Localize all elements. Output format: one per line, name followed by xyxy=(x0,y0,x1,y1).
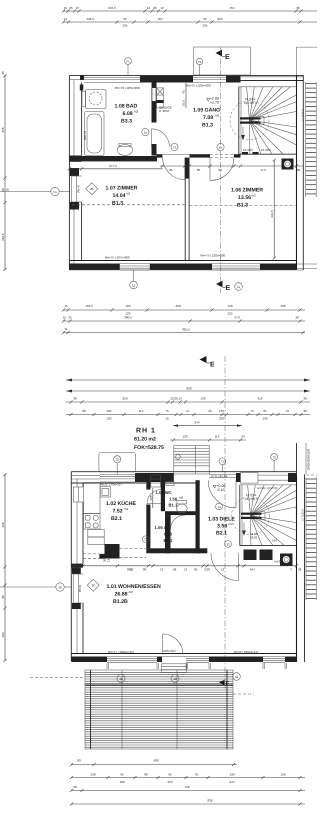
svg-text:B1.1: B1.1 xyxy=(169,503,179,508)
svg-text:647: 647 xyxy=(250,568,255,572)
dimension line xyxy=(71,803,305,805)
interior dim row (gf) xyxy=(71,565,296,567)
svg-text:130: 130 xyxy=(90,773,95,777)
svg-text:38: 38 xyxy=(303,397,307,401)
svg-text:128: 128 xyxy=(182,435,187,439)
svg-text:T1: T1 xyxy=(221,460,225,464)
axis line E xyxy=(220,47,222,293)
svg-text:10: 10 xyxy=(58,585,62,589)
svg-text:38: 38 xyxy=(303,409,307,413)
wall kitchen right xyxy=(146,480,150,489)
left vertical dim line xyxy=(4,75,6,270)
marker T3 kitchen wall xyxy=(142,536,149,543)
svg-text:86: 86 xyxy=(82,409,86,413)
svg-text:7.52: 7.52 xyxy=(113,509,123,515)
stair enclosure xyxy=(238,87,240,154)
canopy outline above stairs xyxy=(194,47,251,75)
svg-text:115: 115 xyxy=(139,409,144,413)
svg-text:20: 20 xyxy=(90,187,94,191)
door to 1.06 xyxy=(209,158,211,181)
dimension line xyxy=(66,414,310,416)
svg-text:20: 20 xyxy=(92,584,96,588)
svg-text:15: 15 xyxy=(64,304,68,308)
shaft top xyxy=(151,475,161,487)
bottom exterior wall xyxy=(69,260,296,262)
svg-text:10,26,13: 10,26,13 xyxy=(170,397,182,401)
svg-text:12: 12 xyxy=(221,568,225,572)
under-stair black blocks xyxy=(244,550,257,561)
top exterior wall xyxy=(69,74,303,76)
svg-text:15: 15 xyxy=(63,316,67,320)
svg-text:331.5: 331.5 xyxy=(270,210,274,218)
stair handrail bar (gf) xyxy=(241,513,262,515)
svg-text:25: 25 xyxy=(68,316,72,320)
entrance door leaf xyxy=(235,480,237,508)
terrace markers xyxy=(117,675,125,683)
svg-text:52.5: 52.5 xyxy=(182,100,186,106)
svg-text:100x=217: 100x=217 xyxy=(163,649,177,653)
wohnen/diele door xyxy=(238,553,240,581)
svg-text:E: E xyxy=(210,362,215,369)
dim 244 xyxy=(173,425,242,427)
wc door arc xyxy=(147,503,161,505)
svg-text:m2: m2 xyxy=(126,192,130,196)
window bottom 1 xyxy=(107,656,157,658)
svg-text:173: 173 xyxy=(260,168,265,172)
svg-text:30: 30 xyxy=(297,168,301,172)
corner jamb block xyxy=(80,85,84,91)
svg-text:30: 30 xyxy=(241,435,245,439)
marker T3 top xyxy=(271,454,278,461)
left vertical dim line (gf) xyxy=(4,474,6,661)
svg-text:Anf.Stb. 120x=250: Anf.Stb. 120x=250 xyxy=(257,487,278,490)
svg-text:90: 90 xyxy=(218,168,222,172)
svg-text:1.05 AR: 1.05 AR xyxy=(155,525,170,530)
dim 277.5 line xyxy=(69,168,162,170)
svg-text:190: 190 xyxy=(227,304,232,308)
svg-text:190: 190 xyxy=(262,417,267,421)
marker T2 below xyxy=(130,281,138,289)
svg-text:75: 75 xyxy=(165,409,169,413)
door marker 1a xyxy=(142,128,149,135)
svg-text:12: 12 xyxy=(160,568,164,572)
step marker xyxy=(176,455,181,460)
svg-text:12: 12 xyxy=(130,568,134,572)
level marks xyxy=(213,486,216,489)
svg-text:38: 38 xyxy=(73,397,77,401)
svg-text:96: 96 xyxy=(208,409,212,413)
svg-text:m2: m2 xyxy=(229,522,233,526)
window jamb ticks below wall xyxy=(106,663,108,669)
door bath xyxy=(151,129,153,147)
wall wc bottom xyxy=(165,511,196,515)
window bottom 2 xyxy=(186,656,209,658)
wall gang/zimmer south xyxy=(157,154,163,157)
window left (kitchen) xyxy=(73,487,78,502)
dimension line xyxy=(63,320,305,322)
wall kitchen/wohnen left part xyxy=(99,554,104,559)
svg-text:Rh=0: Rh=0 xyxy=(77,185,81,193)
window left (wohnen) xyxy=(73,574,78,603)
stove xyxy=(84,514,101,530)
marker 12 xyxy=(114,456,121,463)
axis line E (gf) xyxy=(224,356,226,690)
svg-text:380.5: 380.5 xyxy=(124,316,132,320)
window left (room 1.07) xyxy=(71,176,76,202)
svg-text:18,7/25,4: 18,7/25,4 xyxy=(244,101,257,105)
svg-text:95: 95 xyxy=(1,595,5,599)
neighbour boundary wall right xyxy=(296,443,298,474)
svg-text:114: 114 xyxy=(215,435,220,439)
axis marker E small xyxy=(219,680,225,686)
svg-text:3.58: 3.58 xyxy=(217,524,227,530)
window top (kitchen) xyxy=(100,474,135,476)
bin shelter outline xyxy=(99,453,135,472)
svg-text:133: 133 xyxy=(219,409,224,413)
svg-text:m2: m2 xyxy=(252,194,256,198)
svg-text:90: 90 xyxy=(1,188,5,192)
svg-text:480: 480 xyxy=(153,759,158,763)
svg-text:Rh=75 | 120x=200: Rh=75 | 120x=200 xyxy=(186,84,211,88)
dimension line xyxy=(71,764,237,766)
dimension line xyxy=(71,777,305,779)
svg-text:12: 12 xyxy=(147,6,151,10)
svg-text:80: 80 xyxy=(77,759,81,763)
svg-text:10 30,5: 10 30,5 xyxy=(261,148,271,152)
dashed ground line right xyxy=(233,693,254,695)
span line 838 xyxy=(66,390,310,392)
svg-text:38: 38 xyxy=(71,568,75,572)
terrace deck xyxy=(85,670,233,749)
svg-text:T3: T3 xyxy=(173,145,177,149)
stair landing niche top xyxy=(241,473,259,484)
chimney block kitchen xyxy=(105,544,120,559)
svg-text:125: 125 xyxy=(227,312,232,316)
svg-text:12: 12 xyxy=(116,458,120,462)
svg-text:F1: F1 xyxy=(126,59,130,63)
svg-text:825.5: 825.5 xyxy=(182,328,190,332)
wall bath/zimmer 1.07 xyxy=(69,156,157,161)
top exterior wall (gf) xyxy=(71,471,296,473)
svg-text:13.56: 13.56 xyxy=(238,195,251,201)
svg-text:38: 38 xyxy=(73,785,77,789)
neighbour wall top right xyxy=(295,47,297,75)
svg-text:13: 13 xyxy=(160,6,164,10)
party wall hatch band right xyxy=(305,82,307,197)
svg-text:80: 80 xyxy=(143,568,147,572)
svg-text:14.04: 14.04 xyxy=(113,193,126,199)
dimension line xyxy=(170,439,246,441)
marker T4 xyxy=(216,503,223,510)
svg-text:6.08: 6.08 xyxy=(123,111,133,117)
svg-text:12: 12 xyxy=(132,283,136,287)
left exterior wall xyxy=(68,75,70,270)
svg-text:13: 13 xyxy=(75,6,79,10)
svg-text:18,7/25,4: 18,7/25,4 xyxy=(245,497,258,501)
marker T1 xyxy=(219,458,226,465)
svg-text:281.5: 281.5 xyxy=(1,233,5,241)
svg-text:E: E xyxy=(226,285,231,292)
svg-text:38: 38 xyxy=(298,568,302,572)
svg-text:190: 190 xyxy=(229,773,234,777)
kitchen counter top xyxy=(84,483,101,514)
svg-text:365: 365 xyxy=(1,127,5,132)
svg-text:105: 105 xyxy=(106,409,111,413)
svg-text:11: 11 xyxy=(64,17,67,21)
svg-text:12: 12 xyxy=(107,558,111,562)
svg-text:85: 85 xyxy=(197,168,201,172)
wall between rooms 1.07/1.06 xyxy=(185,158,190,179)
svg-text:F1: F1 xyxy=(198,60,202,64)
stair arrow xyxy=(242,127,244,140)
svg-text:78: 78 xyxy=(194,773,198,777)
svg-text:B2.1: B2.1 xyxy=(111,516,122,522)
svg-text:E: E xyxy=(226,681,230,688)
svg-text:1.06 ZIMMER: 1.06 ZIMMER xyxy=(231,188,263,194)
bottom exterior wall (gf) xyxy=(71,653,297,655)
svg-text:B2.1: B2.1 xyxy=(216,531,227,537)
svg-text:85: 85 xyxy=(169,168,173,172)
svg-text:250: 250 xyxy=(122,397,127,401)
entrance door sill xyxy=(209,474,236,476)
svg-text:140: 140 xyxy=(272,539,277,543)
dimension line xyxy=(63,10,317,12)
svg-text:B1.3: B1.3 xyxy=(112,201,123,207)
interior dim shaft xyxy=(152,488,154,508)
small dims near stair foot xyxy=(242,152,248,155)
svg-text:Rh=75 | 187x=200: Rh=75 | 187x=200 xyxy=(105,256,130,260)
dimension line xyxy=(63,309,305,311)
svg-text:15: 15 xyxy=(6,188,10,192)
svg-text:10 30,5: 10 30,5 xyxy=(243,148,253,152)
terrace door outside step xyxy=(162,664,187,673)
wall marker F1 left xyxy=(51,187,59,195)
boiler xyxy=(282,159,294,170)
svg-text:m18: m18 xyxy=(275,560,281,564)
svg-text:Alu.B. 170x=117: Alu.B. 170x=117 xyxy=(100,483,122,487)
svg-text:+2.70: +2.70 xyxy=(210,101,219,105)
svg-text:m2: m2 xyxy=(215,114,219,118)
window top (bath) xyxy=(84,76,140,78)
svg-text:12: 12 xyxy=(173,677,177,681)
svg-text:GRENZMAUER: GRENZMAUER xyxy=(307,448,311,470)
window marker F1 right xyxy=(196,58,202,64)
svg-text:1.01 WOHNEN/ESSEN: 1.01 WOHNEN/ESSEN xyxy=(107,584,161,590)
site span line xyxy=(66,379,310,381)
svg-text:190: 190 xyxy=(1,632,5,637)
svg-text:245: 245 xyxy=(167,780,172,784)
svg-text:T4: T4 xyxy=(217,505,221,509)
svg-text:17 5x25,4: 17 5x25,4 xyxy=(302,109,305,121)
svg-text:454: 454 xyxy=(229,6,234,10)
stair walk circle xyxy=(230,101,269,140)
party wall hatch band right (gf) xyxy=(305,478,307,601)
svg-text:Rh=75 | 120x=200: Rh=75 | 120x=200 xyxy=(201,254,226,258)
svg-text:25: 25 xyxy=(1,71,5,75)
svg-text:11: 11 xyxy=(64,327,67,331)
svg-text:130: 130 xyxy=(200,397,205,401)
svg-text:26: 26 xyxy=(153,6,157,10)
svg-text:125: 125 xyxy=(122,24,127,28)
svg-text:Rh=0 | 100Ax=117: Rh=0 | 100Ax=117 xyxy=(234,650,259,654)
party wall continuation bottom right xyxy=(297,263,318,265)
wall wc/diele vertical xyxy=(196,480,200,553)
svg-text:244: 244 xyxy=(194,421,199,425)
svg-text:4a: 4a xyxy=(235,675,239,679)
svg-text:81.20 m2: 81.20 m2 xyxy=(134,437,156,443)
svg-text:0.90: 0.90 xyxy=(164,532,173,537)
dashed ground line left xyxy=(30,677,85,679)
svg-text:148.5: 148.5 xyxy=(86,17,94,21)
svg-text:277.5: 277.5 xyxy=(109,164,117,168)
wall ar left thick xyxy=(165,515,171,553)
window bottom 3 xyxy=(263,656,285,658)
terrace door opening xyxy=(162,656,186,658)
svg-text:A. 9KM: A. 9KM xyxy=(159,109,169,113)
marker circle left of T1 xyxy=(171,143,178,150)
window bottom (1.06) xyxy=(212,263,260,265)
svg-text:STG.18/18A: STG.18/18A xyxy=(211,474,228,478)
window bottom (1.07) xyxy=(120,263,150,265)
svg-text:m2: m2 xyxy=(134,110,138,114)
level mark +2.88 xyxy=(207,99,210,102)
svg-text:838: 838 xyxy=(186,387,191,391)
dashes right of wall (gf) xyxy=(306,474,317,476)
svg-text:102: 102 xyxy=(106,417,111,421)
diamond marker (gf) xyxy=(87,579,99,591)
dimension line xyxy=(71,790,305,792)
svg-text:F1: F1 xyxy=(53,190,57,194)
svg-text:1.02 KÜCHE: 1.02 KÜCHE xyxy=(106,500,137,507)
stair handrail bar xyxy=(240,117,261,119)
counter dashed lines xyxy=(120,548,147,550)
svg-text:158: 158 xyxy=(280,773,285,777)
svg-text:836: 836 xyxy=(207,799,212,803)
stair treads xyxy=(247,87,250,120)
bathtub xyxy=(85,112,105,156)
sink xyxy=(100,487,110,498)
svg-text:365: 365 xyxy=(1,522,5,527)
svg-text:Rh=77 | 100Ax=117: Rh=77 | 100Ax=117 xyxy=(108,650,135,654)
svg-text:43: 43 xyxy=(182,90,186,94)
svg-text:95: 95 xyxy=(123,17,127,21)
interior dim row gang south xyxy=(160,165,303,167)
wall wc left xyxy=(161,480,165,511)
axis marker E (bottom) xyxy=(216,281,223,288)
svg-text:220: 220 xyxy=(175,304,180,308)
svg-text:26.88: 26.88 xyxy=(115,592,128,598)
dimension line xyxy=(63,21,317,23)
svg-text:15: 15 xyxy=(165,417,169,421)
interior dim vertical 1.06 xyxy=(273,160,275,258)
dashed ceiling line 1.07 xyxy=(72,204,185,206)
svg-text:11: 11 xyxy=(237,285,240,289)
svg-text:13: 13 xyxy=(184,568,188,572)
window top (gang) xyxy=(193,76,226,78)
dimension line xyxy=(63,332,305,334)
axis marker E (top) xyxy=(216,50,223,57)
svg-text:73: 73 xyxy=(285,409,289,413)
svg-text:T1: T1 xyxy=(219,145,223,149)
stair enclosure (gf) xyxy=(239,485,241,546)
svg-text:m2: m2 xyxy=(124,507,128,511)
svg-text:95: 95 xyxy=(168,773,172,777)
svg-text:7.09: 7.09 xyxy=(203,115,213,121)
terrace door arc xyxy=(162,634,164,655)
svg-text:338: 338 xyxy=(280,304,285,308)
svg-text:Rh=0: Rh=0 xyxy=(78,585,82,593)
marker 11 below xyxy=(235,283,243,291)
kitchen cabinets south xyxy=(88,530,104,538)
washbasin xyxy=(86,90,107,109)
svg-text:B1.3: B1.3 xyxy=(202,123,213,129)
svg-text:164: 164 xyxy=(157,17,162,21)
svg-text:95: 95 xyxy=(203,17,207,21)
boiler (gf) xyxy=(280,554,293,566)
svg-text:67: 67 xyxy=(186,409,190,413)
wc basin xyxy=(166,482,174,486)
wc toilet xyxy=(176,504,187,513)
wall marker 10 xyxy=(56,583,64,591)
svg-text:95: 95 xyxy=(120,773,124,777)
dimension line xyxy=(66,401,310,403)
svg-text:1.07 ZIMMER: 1.07 ZIMMER xyxy=(106,186,138,192)
svg-text:125: 125 xyxy=(125,304,130,308)
svg-text:370: 370 xyxy=(234,316,239,320)
svg-text:180: 180 xyxy=(119,780,124,784)
svg-text:152.5: 152.5 xyxy=(85,304,93,308)
svg-text:323: 323 xyxy=(217,17,222,21)
right exterior wall xyxy=(296,75,298,270)
svg-text:245.5: 245.5 xyxy=(108,6,116,10)
svg-text:75: 75 xyxy=(250,409,254,413)
svg-text:1.04 WC: 1.04 WC xyxy=(156,490,172,495)
svg-text:1a: 1a xyxy=(144,130,148,134)
toilet xyxy=(118,145,133,156)
svg-text:80: 80 xyxy=(144,773,148,777)
svg-text:BW 75: BW 75 xyxy=(83,131,87,140)
marker 13 diele xyxy=(225,541,232,548)
right exterior wall (gf) xyxy=(296,474,298,662)
door to 1.07 xyxy=(184,158,186,180)
svg-text:38: 38 xyxy=(295,316,299,320)
svg-text:B1.2B: B1.2B xyxy=(113,599,128,605)
svg-text:13: 13 xyxy=(226,542,230,546)
svg-text:E: E xyxy=(225,54,230,61)
svg-text:230: 230 xyxy=(219,417,224,421)
diamond marker xyxy=(86,183,98,195)
wall bath/gang xyxy=(152,83,157,123)
svg-text:65: 65 xyxy=(263,409,267,413)
svg-text:18,01: 18,01 xyxy=(250,536,258,540)
svg-text:25: 25 xyxy=(69,6,73,10)
svg-text:B2.1: B2.1 xyxy=(164,538,174,543)
svg-text:245: 245 xyxy=(229,780,234,784)
svg-text:FOK=528.75: FOK=528.75 xyxy=(134,445,164,451)
left exterior wall (gf) xyxy=(70,472,72,661)
south wall of wc/ar block xyxy=(146,548,207,553)
dashed ceiling line 1.06 xyxy=(190,204,296,206)
svg-text:15: 15 xyxy=(64,6,68,10)
svg-text:Rh=70 | 185x=200: Rh=70 | 185x=200 xyxy=(115,86,140,90)
axis marker E (mid) xyxy=(200,356,207,363)
svg-text:3.08: 3.08 xyxy=(204,568,210,572)
svg-text:T3: T3 xyxy=(272,455,276,459)
entrance steps xyxy=(174,446,209,474)
window marker F1 left xyxy=(125,58,132,65)
svg-text:T3: T3 xyxy=(144,538,148,542)
svg-text:-0.10: -0.10 xyxy=(217,488,225,492)
